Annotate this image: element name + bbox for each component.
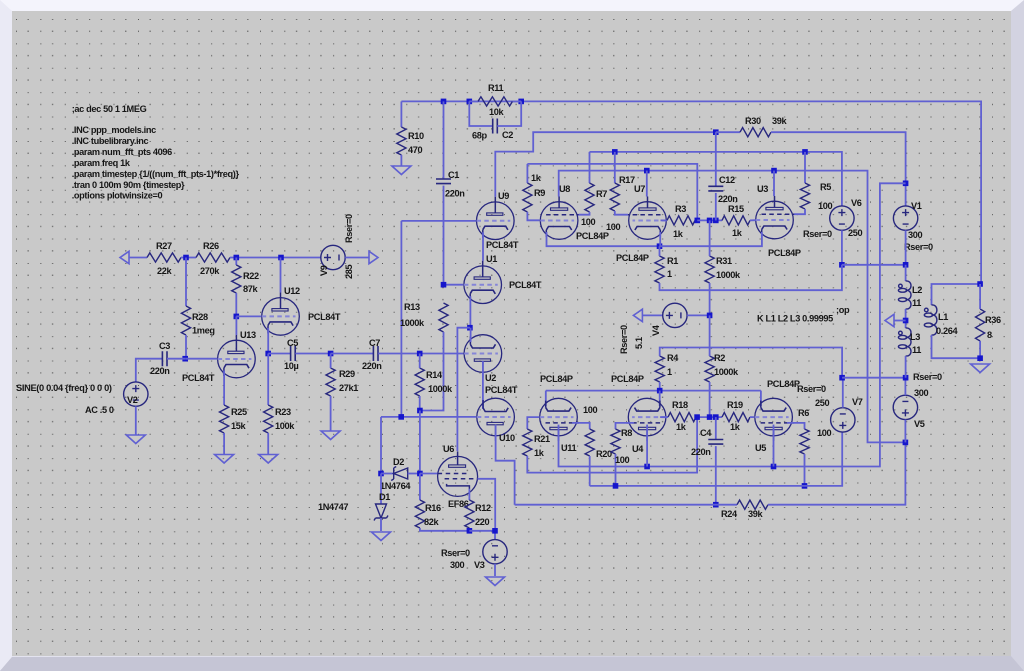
wire D1 top lead: [380, 474, 382, 505]
svg-text:U3: U3: [757, 184, 768, 194]
wire U5 plate lead: [773, 425, 775, 467]
tube U11 PCL84P: [540, 398, 579, 441]
diode D2 1N4764: [391, 467, 408, 481]
wire D2 right lead: [408, 473, 420, 475]
wire R5 bottom lead: [794, 209, 805, 214]
resistor R8: [611, 429, 620, 454]
wire node A vertical: [400, 221, 402, 417]
resistor R18: [668, 413, 696, 422]
svg-text:PCL84P: PCL84P: [616, 253, 649, 263]
wire U7 plate lead: [646, 171, 648, 197]
svg-text:Rser=0: Rser=0: [344, 214, 354, 243]
junction C5 left node: [265, 351, 271, 357]
ground under R10: [392, 166, 411, 175]
wire L1 top route: [932, 284, 981, 305]
wire V1 bottom lead: [905, 230, 907, 264]
svg-text:.param timestep {1/((num_fft_p: .param timestep {1/((num_fft_pts-1)*freq…: [72, 169, 240, 179]
wire R3 to junction: [695, 219, 697, 221]
wire U10 grid row: [381, 416, 476, 418]
svg-text:U4: U4: [632, 444, 644, 454]
junction R36 bottom: [977, 355, 983, 361]
tube U4 PCL84P: [627, 398, 666, 441]
svg-text:Rser=0: Rser=0: [797, 384, 826, 394]
wire C4 top lead: [715, 417, 717, 439]
svg-text:R4: R4: [667, 353, 679, 363]
wire R2 top lead: [709, 315, 711, 356]
svg-text:270k: 270k: [200, 266, 220, 276]
resistor R24: [737, 500, 768, 509]
svg-text:220n: 220n: [445, 189, 465, 199]
wire bottom cathode row: [546, 390, 761, 392]
wire D2 left lead: [381, 473, 394, 475]
svg-text:68p: 68p: [472, 131, 488, 141]
wire U6 cathode lead: [468, 489, 470, 500]
svg-text:11: 11: [912, 345, 921, 355]
svg-text:L2: L2: [912, 285, 922, 295]
svg-text:U6: U6: [443, 444, 454, 454]
wire V7-L3 link: [842, 377, 906, 379]
tube U1 PCL84T: [464, 261, 502, 304]
svg-text:.INC ppp_models.inc: .INC ppp_models.inc: [72, 125, 156, 135]
junction R31 top: [707, 218, 713, 224]
svg-text:82k: 82k: [424, 517, 440, 527]
port tap arrow: [885, 314, 894, 326]
wire R19 to U5 grid: [750, 416, 754, 418]
wire R6 bottom lead: [804, 454, 806, 486]
wire R36 top lead: [979, 284, 981, 309]
junction R29 top: [328, 351, 334, 357]
wire V3 top: [469, 531, 495, 540]
wire R27-R26: [181, 257, 196, 259]
wire U12 grid wire: [236, 315, 261, 317]
svg-text:V4: V4: [651, 324, 661, 336]
svg-text:R23: R23: [275, 407, 291, 417]
svg-text:R3: R3: [675, 204, 686, 214]
junction cathode R1: [657, 243, 663, 249]
voltage source V7: [831, 408, 855, 432]
svg-text:Rser=0: Rser=0: [441, 548, 470, 558]
svg-text:300: 300: [908, 230, 923, 240]
wire cathode row right: [660, 232, 762, 246]
tube U13 PCL84T: [218, 335, 256, 378]
svg-text:R29: R29: [339, 369, 355, 379]
junction R11 left: [467, 99, 473, 105]
junction R2 bottom: [707, 414, 713, 420]
resistor R1: [655, 256, 664, 283]
wire U11 cathode lead: [545, 391, 547, 406]
capacitor C12: [708, 186, 723, 191]
wire R29 top lead: [330, 354, 332, 369]
wire U10 plate route: [496, 425, 515, 505]
ground under R23: [259, 455, 278, 464]
resistor R13: [439, 303, 448, 332]
junction V4-R31-R2: [707, 313, 713, 319]
resistor R4: [655, 356, 664, 382]
junction V7 top: [839, 375, 845, 381]
svg-text:L1: L1: [938, 312, 948, 322]
svg-text:U10: U10: [499, 433, 515, 443]
capacitor C5: [291, 346, 296, 361]
resistor R15: [722, 216, 750, 225]
wire R17 bottom lead: [615, 211, 628, 215]
wire V7 top lead: [842, 378, 844, 408]
junction C1 top: [441, 99, 447, 105]
svg-text:39k: 39k: [772, 116, 788, 126]
wire R8 top route: [616, 423, 635, 429]
wire R14 junction drop: [419, 411, 421, 474]
wire bottom plate row: [559, 425, 774, 467]
svg-text:15k: 15k: [231, 421, 247, 431]
svg-text:Rser=0: Rser=0: [904, 242, 933, 252]
voltage source V9: [321, 245, 345, 269]
svg-text:U2: U2: [485, 373, 496, 383]
svg-text:PCL84T: PCL84T: [308, 312, 341, 322]
resistor R14: [415, 368, 424, 396]
svg-text:1k: 1k: [673, 229, 684, 239]
resistor R26: [196, 253, 230, 262]
wire C1 top lead: [443, 101, 445, 179]
junction node A bottom: [398, 414, 404, 420]
tube U5 PCL84P: [755, 398, 794, 441]
wire R14 bottom lead: [419, 396, 421, 411]
svg-text:V5: V5: [914, 419, 925, 429]
svg-text:10µ: 10µ: [284, 361, 299, 371]
wire V9 to out: [345, 257, 369, 259]
wire U1 cathode lead: [469, 296, 471, 328]
wire R26 to V9: [230, 257, 321, 259]
junction R17 top: [612, 149, 618, 155]
junction U12 plate: [278, 255, 284, 261]
svg-text:Rser=0: Rser=0: [803, 229, 832, 239]
wire R7 bottom lead: [579, 212, 590, 215]
resistor R20: [585, 429, 594, 456]
resistor R21: [523, 429, 532, 456]
resistor R30: [740, 128, 771, 137]
resistor R36: [976, 309, 985, 341]
svg-text:PCL84T: PCL84T: [485, 385, 518, 395]
voltage source V1: [893, 206, 917, 230]
wire R28 top lead: [185, 258, 187, 307]
svg-text:R24: R24: [721, 509, 738, 519]
wire R24 row left: [515, 504, 712, 506]
svg-text:1000k: 1000k: [400, 318, 425, 328]
resistor R23: [264, 405, 273, 433]
svg-text:1000k: 1000k: [428, 384, 453, 394]
svg-text:C3: C3: [159, 341, 170, 351]
wire R9 bottom lead: [527, 212, 539, 220]
svg-text:100k: 100k: [275, 421, 295, 431]
junction U4 plate: [644, 464, 650, 470]
resistor R19: [722, 413, 750, 422]
wire R21 top route: [527, 417, 539, 429]
junction D2-R16-U6grid: [417, 471, 423, 477]
wire V3 bottom lead: [494, 564, 496, 576]
svg-text:R6: R6: [798, 408, 809, 418]
wire arrow to V4: [642, 314, 662, 316]
voltage source V5: [893, 395, 917, 419]
wire U7 cathode lead: [659, 232, 661, 246]
svg-text:SINE(0 0.04 {freq} 0 0 0): SINE(0 0.04 {freq} 0 0 0): [16, 383, 112, 393]
wire U13 cathode lead: [223, 371, 225, 406]
svg-text:V6: V6: [851, 198, 862, 208]
wire R6 top route: [787, 423, 805, 429]
svg-text:5.1: 5.1: [634, 337, 644, 349]
wire R5 top lead: [804, 152, 806, 183]
svg-text:AC .5 0: AC .5 0: [85, 405, 114, 415]
svg-text:39k: 39k: [748, 509, 764, 519]
wire L2-L3 tap: [905, 309, 907, 328]
wire R1 bottom route: [660, 265, 842, 290]
junction R12 bottom: [467, 528, 473, 534]
inductor L1: [924, 305, 937, 335]
wire R11 right lead: [513, 100, 522, 102]
junction C4 bottom: [713, 502, 719, 508]
wire U1 grid wire: [444, 284, 464, 286]
capacitor C3: [162, 351, 167, 366]
wire R17 top lead: [614, 152, 616, 183]
svg-text:.options plotwinsize=0: .options plotwinsize=0: [72, 191, 163, 201]
tube U7 PCL84P: [627, 197, 666, 240]
junction R5 top: [802, 149, 808, 155]
junction R4-U4 cathode: [657, 388, 663, 394]
svg-text:C7: C7: [369, 338, 380, 348]
svg-text:11: 11: [912, 298, 921, 308]
wire R18 to junction: [696, 416, 722, 418]
svg-text:1: 1: [667, 367, 672, 377]
wire V1 top branch: [774, 183, 906, 466]
svg-text:8: 8: [987, 330, 992, 340]
svg-text:V7: V7: [852, 397, 863, 407]
wire R36 bottom lead: [979, 341, 981, 358]
svg-text:27k1: 27k1: [339, 383, 358, 393]
svg-text:R17: R17: [619, 175, 635, 185]
wire R23 bottom lead: [267, 433, 269, 455]
svg-text:PCL84T: PCL84T: [486, 240, 519, 250]
wire U9 grid rail: [401, 220, 476, 222]
svg-text:470: 470: [408, 145, 423, 155]
svg-text:U12: U12: [284, 286, 300, 296]
wire C12 top lead: [715, 132, 717, 186]
wire rail2: [527, 164, 697, 221]
wire V2 to C3: [136, 359, 162, 382]
wire C3 to junction: [167, 358, 185, 360]
junction R13-R14: [417, 408, 423, 414]
svg-text:V3: V3: [474, 560, 485, 570]
tube U2 PCL84T: [464, 335, 502, 378]
wire V5 bottom lead: [904, 420, 906, 443]
svg-text:R27: R27: [156, 241, 172, 251]
wire R22 top lead: [235, 258, 237, 266]
tube U8 PCL84P: [540, 197, 579, 240]
wire U9 plate route: [495, 132, 716, 197]
inductor L2: [898, 281, 911, 309]
svg-text:V2: V2: [127, 395, 138, 405]
junction C12 bottom: [713, 218, 719, 224]
svg-text:R36: R36: [985, 315, 1001, 325]
wire V5 top lead: [904, 378, 906, 396]
wire to U6 grid: [420, 473, 438, 475]
svg-text:U11: U11: [561, 443, 577, 453]
wire In to R27: [129, 257, 147, 259]
wire R8 bottom lead: [615, 454, 617, 486]
junction CT tap: [903, 318, 909, 324]
wire R11 left lead: [469, 100, 478, 102]
resistor R16: [415, 500, 424, 528]
svg-text:1k: 1k: [732, 228, 743, 238]
svg-text:R28: R28: [192, 312, 208, 322]
voltage source V6: [830, 206, 854, 230]
svg-text:.tran 0 100m 90m {timestep}: .tran 0 100m 90m {timestep}: [72, 180, 185, 190]
svg-text:R11: R11: [488, 83, 504, 93]
svg-text:R16: R16: [425, 503, 441, 513]
wire C7 to U2 grid: [378, 353, 463, 355]
svg-text:V1: V1: [911, 201, 922, 211]
diode D1 1N4747: [374, 504, 388, 521]
tube U3 PCL84P: [756, 196, 795, 239]
ground under R36: [971, 364, 990, 373]
wire C5 left lead: [268, 353, 290, 355]
resistor R9: [523, 183, 532, 212]
svg-text:1k: 1k: [531, 173, 542, 183]
svg-text:K L1 L2 L3 0.99995: K L1 L2 L3 0.99995: [757, 314, 833, 324]
tube U6 EF86: [438, 451, 478, 496]
svg-text:C12: C12: [719, 175, 735, 185]
svg-text:1000k: 1000k: [714, 367, 739, 377]
svg-text:1k: 1k: [534, 448, 545, 458]
svg-text:100: 100: [615, 455, 630, 465]
voltage source V2: [124, 382, 148, 406]
svg-text:1N4747: 1N4747: [318, 502, 348, 512]
wire U7 grid to R3: [661, 219, 668, 221]
wire R28 bottom lead: [185, 335, 187, 359]
junction V1 top: [903, 181, 909, 187]
svg-text:300: 300: [914, 388, 929, 398]
tube U9 PCL84T: [477, 197, 515, 240]
junction V6 bottom: [839, 262, 845, 268]
wire rail R30 left segment: [716, 131, 740, 133]
svg-text:PCL84P: PCL84P: [611, 374, 644, 384]
junction R14 top: [417, 351, 423, 357]
svg-text:U13: U13: [240, 330, 256, 340]
wire R4 top route: [660, 348, 842, 378]
resistor R2: [705, 356, 714, 382]
tube U12 PCL84T: [262, 292, 300, 335]
svg-text:V9: V9: [319, 265, 329, 276]
capacitor C7: [373, 346, 378, 361]
wire V6-L2 link: [842, 264, 906, 266]
svg-text:;ac dec 50 1 1MEG: ;ac dec 50 1 1MEG: [72, 104, 147, 114]
wire L3 bottom lead: [905, 356, 907, 378]
svg-text:R26: R26: [203, 241, 219, 251]
svg-text:R19: R19: [727, 400, 743, 410]
svg-text:R14: R14: [426, 370, 443, 380]
wire R10 bottom lead: [400, 155, 402, 166]
svg-text:PCL84P: PCL84P: [576, 231, 609, 241]
resistor R31: [705, 256, 714, 283]
wire R29 to C7: [331, 353, 374, 355]
resistor R6: [800, 429, 809, 454]
wire V4 to junction: [687, 314, 710, 316]
svg-text:R2: R2: [714, 353, 725, 363]
wire U2 plate to U10 cathode: [482, 361, 484, 409]
junction L3 bottom: [903, 375, 909, 381]
wire C4 bottom lead: [715, 446, 717, 505]
svg-text:.INC tubelibrary.inc: .INC tubelibrary.inc: [72, 136, 149, 146]
svg-text:220n: 220n: [718, 194, 738, 204]
wire to U13 grid: [185, 358, 217, 360]
capacitor C4: [708, 440, 723, 445]
svg-text:220n: 220n: [150, 366, 170, 376]
wire V2 bottom lead: [135, 406, 137, 435]
svg-text:R18: R18: [672, 400, 688, 410]
svg-text:R21: R21: [534, 434, 550, 444]
svg-text:PCL84P: PCL84P: [768, 248, 801, 258]
capacitor C1: [436, 179, 451, 184]
svg-text:R22: R22: [243, 271, 259, 281]
svg-text:PCL84P: PCL84P: [540, 374, 573, 384]
wire U4 plate lead: [646, 425, 648, 467]
wire U9 cathode to U1 plate: [482, 232, 484, 261]
junction R8 bottom: [613, 483, 619, 489]
wire R14 top lead: [419, 354, 421, 369]
wire R16 bottom lead: [420, 528, 469, 531]
wire U4 cathode lead: [659, 391, 661, 406]
svg-text:U7: U7: [634, 184, 645, 194]
svg-text:R9: R9: [534, 188, 545, 198]
svg-text:220: 220: [475, 517, 490, 527]
wire R13 bottom lead: [420, 332, 444, 411]
svg-text:100: 100: [606, 222, 621, 232]
wire V6 bottom lead: [841, 230, 843, 264]
wire R31 top lead: [709, 220, 711, 256]
wire R2 bottom lead: [709, 382, 711, 417]
ground under D1: [372, 532, 391, 541]
resistor R29: [326, 368, 335, 396]
resistor R5: [800, 183, 809, 209]
wire R20 bottom lead: [589, 456, 591, 486]
wire U5 cathode lead: [760, 391, 762, 406]
svg-text:PCL84T: PCL84T: [182, 373, 215, 383]
svg-text:R25: R25: [231, 407, 247, 417]
svg-text:87k: 87k: [243, 284, 259, 294]
junction U5 plate: [771, 464, 777, 470]
resistor R3: [667, 216, 695, 225]
wire U12 cathode lead: [267, 328, 269, 354]
svg-text:U1: U1: [486, 254, 497, 264]
resistor R10: [397, 127, 406, 155]
svg-text:0.264: 0.264: [936, 326, 958, 336]
junction R11 right: [518, 99, 524, 105]
svg-text:.param freq 1k: .param freq 1k: [72, 158, 131, 168]
svg-text:R30: R30: [745, 116, 761, 126]
junction U3 plate: [771, 168, 777, 174]
wire U4 grid to R18: [660, 416, 668, 418]
svg-text:U5: U5: [755, 443, 766, 453]
junction grid row B: [694, 414, 700, 420]
wire R22 bottom lead: [235, 293, 237, 316]
svg-text:R15: R15: [728, 204, 744, 214]
svg-text:D1: D1: [379, 492, 390, 502]
svg-text:22k: 22k: [157, 266, 173, 276]
wire U6 screen route: [478, 479, 496, 531]
ground under R25: [215, 455, 234, 464]
svg-text:R7: R7: [596, 189, 607, 199]
svg-text:1meg: 1meg: [192, 326, 215, 336]
ground under V3: [486, 577, 505, 586]
wire U2 cathode lead: [470, 328, 472, 342]
wire L1 bottom route: [932, 335, 981, 358]
svg-text:Rser=0: Rser=0: [619, 325, 629, 354]
